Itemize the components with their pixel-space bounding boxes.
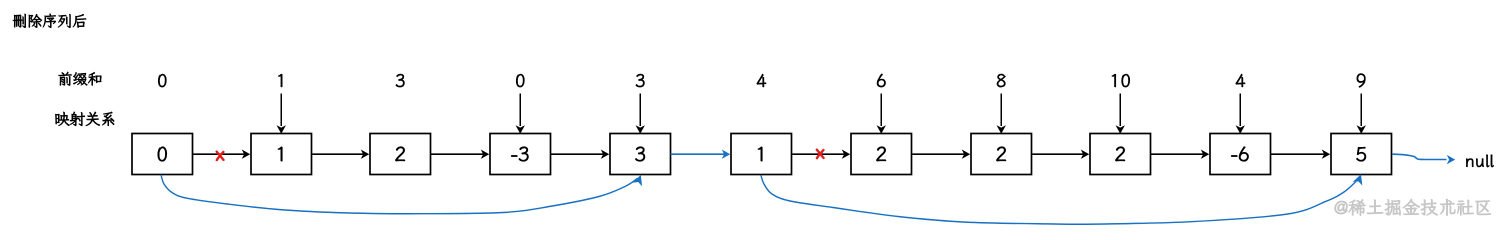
null terminator label — [1466, 155, 1494, 167]
prefix sum value 8 above node 8 — [997, 74, 1006, 87]
blue skip-link curve from node 6 (1) under the list to node 11 (5) — [761, 172, 1366, 224]
mapping arrow from prefix sum 8 down to node 8 — [997, 94, 1006, 134]
prefix sum value 0 above node 4 — [516, 74, 524, 87]
prefix sum value 9 above node 11 — [1357, 74, 1366, 88]
linked-list node box 9 value 2 — [1090, 134, 1151, 175]
prefix sum value 6 above node 7 — [877, 74, 886, 87]
wire: next-pointer arrow from node 8 to node 9 — [1032, 150, 1090, 159]
prefix sum value 4 above node 6 — [757, 74, 766, 87]
linked-list node box 7 value 2 — [851, 134, 912, 175]
linked-list node box 5 value 3 — [610, 134, 671, 175]
mapping arrow from prefix sum 4 down to node 10 — [1236, 94, 1245, 134]
wire: next-pointer arrow from node 2 to node 3 — [312, 150, 370, 159]
linked-list node box 1 value 0 — [132, 134, 193, 175]
mapping arrow from prefix sum 9 down to node 11 — [1357, 94, 1366, 134]
row label 映射关系 — [55, 112, 114, 126]
wire: next-pointer arrow from node 3 to node 4 — [431, 150, 490, 159]
linked-list node box 11 value 5 — [1331, 134, 1392, 175]
linked-list node box 6 value 1 — [731, 134, 792, 175]
mapping arrow from prefix sum 10 down to node 9 — [1116, 94, 1125, 134]
wire: next-pointer arrow from node 1 to node 2 — [193, 150, 251, 159]
linked-list node box 3 value 2 — [370, 134, 431, 175]
linked-list node box 2 value 1 — [251, 134, 312, 175]
prefix sum value 1 above node 2 — [278, 74, 282, 87]
wire: next-pointer arrow from node 4 to node 5 — [551, 150, 610, 159]
blue skip-link curve from node 1 (0) under the list to node 5 (3) — [161, 173, 646, 214]
mapping arrow from prefix sum 3 down to node 5 — [636, 94, 645, 134]
mapping arrow from prefix sum 6 down to node 7 — [877, 94, 886, 134]
wire: next-pointer arrow from node 10 to node 11 — [1271, 150, 1331, 159]
blue next-pointer squiggle arrow from node 11 to null — [1392, 154, 1455, 164]
watermark @稀土掘金技术社区 — [1335, 199, 1491, 216]
red X deleted-link mark on arrow from node 6 to node 7 — [817, 150, 824, 159]
mapping arrow from prefix sum 1 down to node 2 — [277, 94, 286, 134]
red X deleted-link mark on arrow from node 1 to node 2 — [217, 152, 224, 161]
prefix sum value 3 above node 5 — [636, 74, 645, 87]
linked-list node box 4 value -3 — [490, 134, 551, 175]
linked-list node box 10 value -6 — [1210, 134, 1271, 175]
mapping arrow from prefix sum 0 down to node 4 — [516, 94, 525, 134]
wire: next-pointer arrow from node 5 to node 6 (blue new link) — [671, 150, 731, 159]
wire: next-pointer arrow from node 6 to node 7 — [792, 150, 851, 159]
wire: next-pointer arrow from node 9 to node 10 — [1151, 150, 1210, 159]
wire: next-pointer arrow from node 7 to node 8 — [912, 150, 971, 159]
title label 删除序列后 — [13, 14, 86, 28]
prefix sum value 4 above node 10 — [1236, 74, 1245, 87]
row label 前缀和 — [59, 72, 102, 86]
prefix sum value 3 above node 3 — [396, 74, 405, 87]
prefix sum value 10 above node 9 — [1112, 74, 1130, 87]
prefix sum value 0 above node 1 — [158, 74, 166, 87]
linked-list node box 8 value 2 — [971, 134, 1032, 175]
